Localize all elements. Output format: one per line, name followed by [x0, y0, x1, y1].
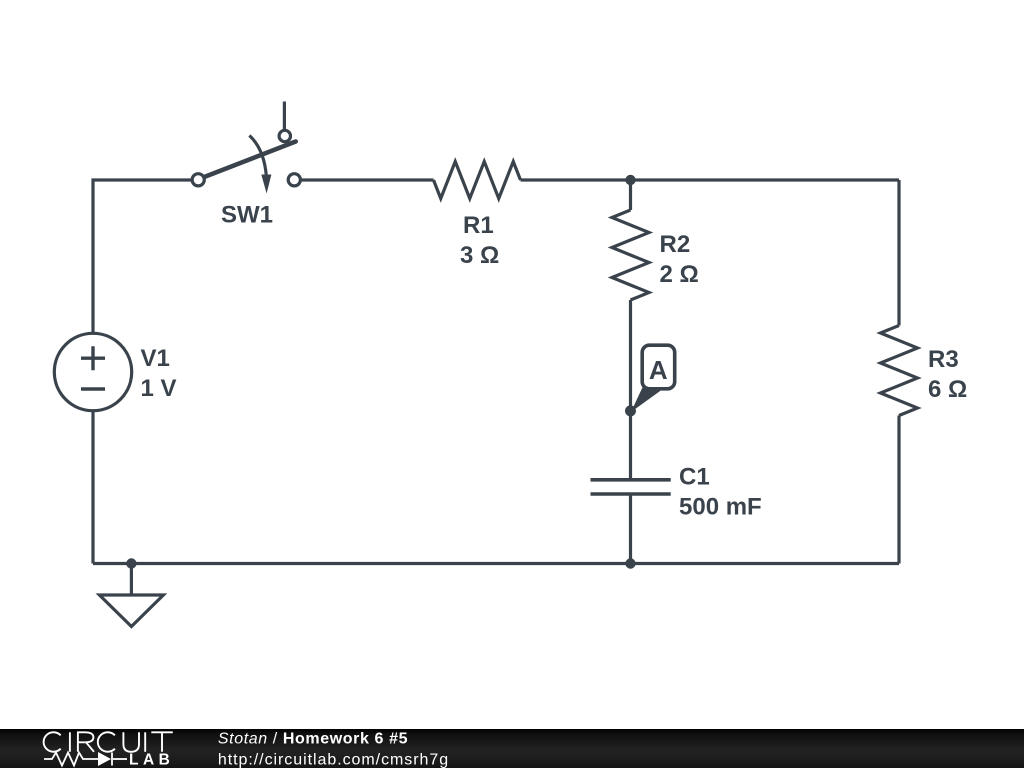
svg-text:SW1: SW1 [221, 202, 273, 229]
wire right rail lower [897, 416, 900, 564]
V1 minus sign [81, 387, 105, 390]
svg-text:1 V: 1 V [141, 375, 177, 402]
logo resistor-diode line [44, 753, 127, 766]
svg-text:C1: C1 [679, 464, 710, 491]
wire top-left from V1 to SW1 [93, 180, 191, 333]
logo CIRCUIT monoline letters [44, 732, 173, 752]
svg-text:A: A [649, 355, 668, 385]
svg-text:3 Ω: 3 Ω [460, 242, 499, 269]
wire left rail below V1 [91, 412, 94, 564]
svg-text:2 Ω: 2 Ω [660, 261, 699, 288]
switch SW1 arrow head [261, 175, 271, 194]
svg-text:500 mF: 500 mF [679, 494, 762, 521]
node A flag box [642, 345, 675, 389]
wire node to R2 [629, 180, 632, 210]
resistor R2 [612, 210, 649, 300]
junction dot node A [625, 405, 636, 416]
wire R2 to C1 [629, 300, 632, 480]
capacitor C1 top plate [591, 478, 671, 482]
switch SW1 right terminal [288, 174, 300, 186]
resistor R3 [881, 326, 918, 416]
switch SW1 actuation arc [249, 136, 266, 176]
wire bottom rail [93, 562, 899, 565]
wire C1 to bottom rail [629, 494, 632, 564]
capacitor C1 bottom plate [591, 492, 671, 496]
V1 plus sign [81, 346, 105, 370]
junction dot top node [625, 175, 635, 185]
svg-text:R2: R2 [660, 231, 691, 258]
ground stem [130, 564, 133, 596]
svg-text:6 Ω: 6 Ω [928, 376, 967, 403]
switch SW1 left terminal [192, 174, 204, 186]
node A flag beak [631, 386, 661, 412]
wire R1 to node to right rail [521, 178, 900, 181]
logo diode triangle [98, 752, 111, 766]
junction dot bottom middle [625, 558, 635, 568]
junction dot ground [126, 558, 136, 568]
switch SW1 top stub [283, 102, 286, 130]
svg-text:Stotan / Homework 6 #5: Stotan / Homework 6 #5 [218, 731, 408, 748]
switch SW1 top terminal [279, 130, 290, 141]
svg-text:R3: R3 [928, 346, 959, 373]
footer bar [0, 729, 1024, 768]
svg-text:LAB: LAB [129, 752, 174, 768]
switch SW1 blade [206, 142, 296, 177]
wire SW1 to R1 [302, 178, 434, 181]
voltage source V1 circle [54, 333, 131, 410]
resistor R1 [434, 162, 521, 199]
svg-text:http://circuitlab.com/cmsrh7g: http://circuitlab.com/cmsrh7g [218, 751, 449, 768]
svg-text:V1: V1 [141, 345, 170, 372]
svg-text:R1: R1 [463, 212, 494, 239]
ground triangle [99, 595, 163, 627]
wire right rail upper [897, 180, 900, 326]
